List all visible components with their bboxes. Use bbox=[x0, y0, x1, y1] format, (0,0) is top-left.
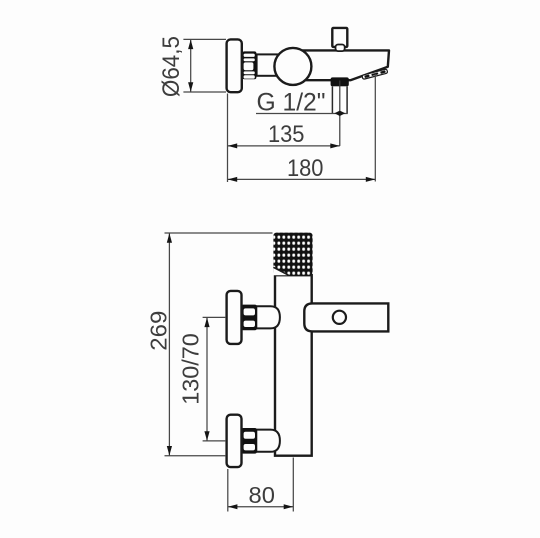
dim 80 extension right bbox=[292, 458, 294, 512]
arrow Ø64,5 down bbox=[188, 82, 193, 92]
arrow 269 down bbox=[167, 446, 172, 456]
wall flange (top view) bbox=[227, 39, 242, 92]
dim 269 line bbox=[168, 233, 170, 456]
dim 130/70 extension top bbox=[203, 316, 226, 318]
arrow 130/70 down bbox=[204, 431, 209, 441]
arrow 135 left bbox=[228, 143, 238, 148]
upper connector cap bbox=[256, 306, 280, 328]
svg-text:G 1/2": G 1/2" bbox=[257, 88, 326, 116]
dim 180 line bbox=[228, 178, 376, 180]
arrow 130/70 up bbox=[204, 318, 209, 328]
arrow diamond G1/2 bbox=[334, 111, 345, 116]
arrow 80 left bbox=[228, 504, 238, 509]
knurled handle bbox=[273, 233, 312, 276]
upper nut bbox=[241, 305, 257, 331]
svg-text:130/70: 130/70 bbox=[178, 333, 204, 405]
lower nut bbox=[241, 428, 257, 454]
dim 135 line bbox=[228, 145, 340, 147]
dim G1/2 line bbox=[256, 113, 348, 115]
pipe centerline bbox=[339, 81, 341, 146]
spout arm circle bbox=[333, 311, 346, 324]
black collar of outlet bbox=[331, 77, 349, 86]
dim Ø64,5 line bbox=[190, 39, 192, 92]
svg-text:269: 269 bbox=[146, 311, 172, 351]
dim 80 line bbox=[228, 506, 293, 508]
dim 80 extension left bbox=[227, 469, 229, 512]
main body column bbox=[275, 275, 312, 456]
wall plane extension line bbox=[227, 94, 229, 183]
svg-text:180: 180 bbox=[287, 155, 324, 182]
svg-text:80: 80 bbox=[249, 482, 275, 508]
arrow Ø64,5 up bbox=[188, 40, 193, 50]
diverter knob stem bbox=[336, 45, 345, 52]
dim Ø64,5 extension bottom bbox=[183, 91, 226, 93]
lower wall flange bbox=[227, 415, 242, 467]
dim 130/70 line bbox=[206, 317, 208, 441]
lower connector cap bbox=[256, 430, 280, 452]
upper wall flange bbox=[227, 291, 242, 344]
arrow 80 right bbox=[284, 504, 294, 509]
spout tip extension line bbox=[374, 74, 376, 182]
dim Ø64,5 extension top bbox=[183, 38, 226, 40]
dim 269 extension top bbox=[165, 232, 273, 234]
neck between nut and handle circle bbox=[257, 54, 279, 75]
arrow 180 left bbox=[228, 177, 238, 182]
dim 130/70 extension bottom bbox=[203, 440, 226, 442]
aerator strip on spout underside bbox=[362, 69, 388, 79]
diverter knob bbox=[332, 28, 347, 47]
outlet pipe G1/2 bbox=[332, 86, 347, 113]
body slab with spout taper bbox=[292, 50, 389, 80]
dim 269 extension bottom bbox=[165, 455, 227, 457]
handle circle bbox=[274, 48, 311, 85]
handle bottom-left chamfer bbox=[273, 267, 288, 275]
svg-text:Ø64,5: Ø64,5 bbox=[158, 36, 185, 97]
arrow 269 up bbox=[167, 233, 172, 243]
arrow 180 right bbox=[366, 177, 376, 182]
arrow 135 right bbox=[330, 143, 340, 148]
svg-text:135: 135 bbox=[268, 121, 305, 148]
wall nut (top view) bbox=[242, 51, 256, 79]
spout arm bbox=[304, 303, 388, 331]
